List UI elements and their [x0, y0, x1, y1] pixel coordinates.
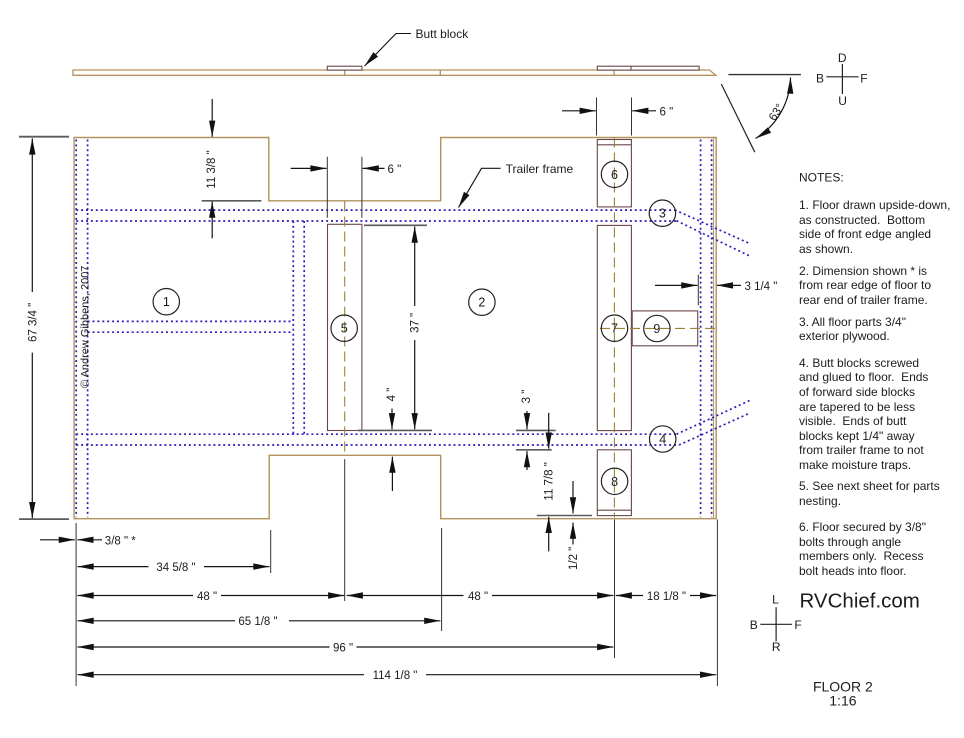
balloon 5 — [331, 315, 357, 341]
floor outline — [74, 138, 716, 519]
svg-text:6 ": 6 " — [388, 164, 402, 176]
svg-text:5: 5 — [341, 322, 348, 336]
svg-text:Butt block: Butt block — [416, 27, 470, 41]
svg-text:B: B — [750, 618, 758, 632]
side view floor bar — [73, 70, 716, 75]
svg-text:67 3/4 ": 67 3/4 " — [28, 303, 40, 342]
dimension 1/2 — [572, 481, 574, 545]
note 1 — [799, 198, 950, 256]
svg-text:3 1/4 ": 3 1/4 " — [745, 281, 778, 293]
leader Trailer frame — [459, 168, 501, 207]
svg-text:U: U — [838, 94, 847, 108]
butt block side view right — [597, 66, 699, 70]
balloon 8 — [601, 468, 627, 494]
note 2 — [799, 264, 931, 308]
svg-text:F: F — [860, 72, 867, 86]
part 5 butt block — [328, 224, 362, 430]
part 5 centerline — [344, 202, 346, 456]
part 9 centerline — [600, 327, 716, 329]
svg-text:114 1/8 ": 114 1/8 " — [373, 670, 418, 682]
dimension 48 left — [78, 595, 345, 597]
svg-text:48 ": 48 " — [197, 591, 217, 603]
dimension 4 — [391, 409, 393, 492]
svg-text:D: D — [838, 51, 847, 65]
trailer frame upper member (hidden) — [76, 210, 750, 256]
svg-text:3/8 " *: 3/8 " * — [105, 535, 136, 547]
dimension 3 1/4 — [697, 275, 699, 306]
balloon 4 — [650, 426, 676, 452]
dimension 65 1/8 — [78, 620, 441, 622]
svg-text:RVChief.com: RVChief.com — [800, 590, 920, 613]
svg-text:Trailer frame: Trailer frame — [506, 162, 574, 176]
svg-text:4: 4 — [659, 433, 666, 447]
balloon 7 — [601, 315, 627, 341]
svg-text:4 ": 4 " — [386, 388, 398, 402]
axis symbol top DBFU — [826, 64, 858, 94]
balloon 1 — [153, 289, 179, 315]
63 degree front edge line — [721, 84, 755, 152]
svg-text:7: 7 — [611, 322, 618, 336]
svg-text:3: 3 — [659, 207, 666, 221]
svg-text:37 ": 37 " — [409, 313, 421, 333]
svg-text:1:16: 1:16 — [829, 693, 856, 709]
svg-text:6 ": 6 " — [660, 106, 674, 118]
trailer frame middle cross member (hidden) — [88, 321, 294, 332]
balloon 6 — [601, 161, 627, 187]
dimension 18 1/8 — [616, 595, 717, 597]
trailer frame left rail (hidden) — [76, 140, 87, 518]
dimension 96 — [78, 646, 614, 648]
trailer frame right rail (hidden) — [701, 140, 712, 518]
svg-text:96 ": 96 " — [333, 642, 353, 654]
dimension 34 5/8 — [78, 566, 270, 568]
note 4 — [799, 356, 928, 472]
svg-text:18 1/8 ": 18 1/8 " — [647, 591, 686, 603]
dimension 6 part6 — [597, 98, 632, 136]
balloon 9 — [644, 315, 670, 341]
63 degree datum line — [728, 74, 801, 76]
trailer frame vertical member (hidden) — [293, 221, 304, 434]
centerline parts 6-7-8 — [613, 138, 615, 518]
part 8 butt block — [597, 450, 631, 516]
svg-text:1/2 ": 1/2 " — [568, 547, 580, 570]
note 5 — [799, 479, 940, 508]
note 6 — [799, 520, 926, 578]
dimension 114 1/8 — [78, 674, 717, 676]
svg-text:3 ": 3 " — [521, 390, 533, 404]
extension lines bottom — [76, 459, 717, 686]
dimension 48 right — [347, 595, 614, 597]
dimension 11 3/8 — [202, 200, 262, 202]
part 7 butt block — [597, 225, 631, 430]
balloon 3 — [649, 200, 675, 226]
dimension 37 — [358, 225, 432, 430]
svg-text:34 5/8 ": 34 5/8 " — [156, 562, 195, 574]
svg-text:9: 9 — [653, 322, 660, 336]
svg-text:63°: 63° — [767, 102, 787, 123]
63 degree arc — [756, 78, 791, 139]
leader Butt block — [365, 34, 412, 67]
dimension 3 — [516, 430, 556, 449]
butt block side view left — [327, 66, 362, 70]
part 6 butt block — [597, 140, 631, 207]
dimension 3/8 * — [40, 539, 102, 541]
svg-text:11 7/8 ": 11 7/8 " — [544, 462, 556, 500]
dimension 6 part5 — [327, 157, 362, 218]
svg-text:R: R — [772, 640, 781, 654]
svg-text:B: B — [816, 72, 824, 86]
svg-text:NOTES:: NOTES: — [799, 170, 844, 184]
trailer frame lower member (hidden) — [76, 400, 750, 445]
dimension 11 7/8 — [537, 515, 592, 517]
svg-text:2: 2 — [478, 296, 485, 310]
svg-text:L: L — [772, 593, 779, 607]
floor front bevel line — [713, 138, 715, 519]
svg-text:65 1/8 ": 65 1/8 " — [238, 616, 277, 628]
svg-text:48 ": 48 " — [468, 591, 488, 603]
balloon 2 — [469, 289, 495, 315]
dimension 67 3/4 — [19, 137, 69, 519]
svg-text:11 3/8 ": 11 3/8 " — [206, 150, 218, 188]
part 9 butt block — [632, 311, 698, 346]
axis symbol bottom LBFR — [760, 607, 792, 641]
svg-text:F: F — [794, 618, 801, 632]
svg-text:6: 6 — [611, 168, 618, 182]
svg-text:8: 8 — [611, 475, 618, 489]
svg-text:1: 1 — [163, 295, 170, 309]
svg-text:© Andrew Gibbens, 2007: © Andrew Gibbens, 2007 — [80, 266, 92, 388]
note 3 — [799, 315, 906, 344]
